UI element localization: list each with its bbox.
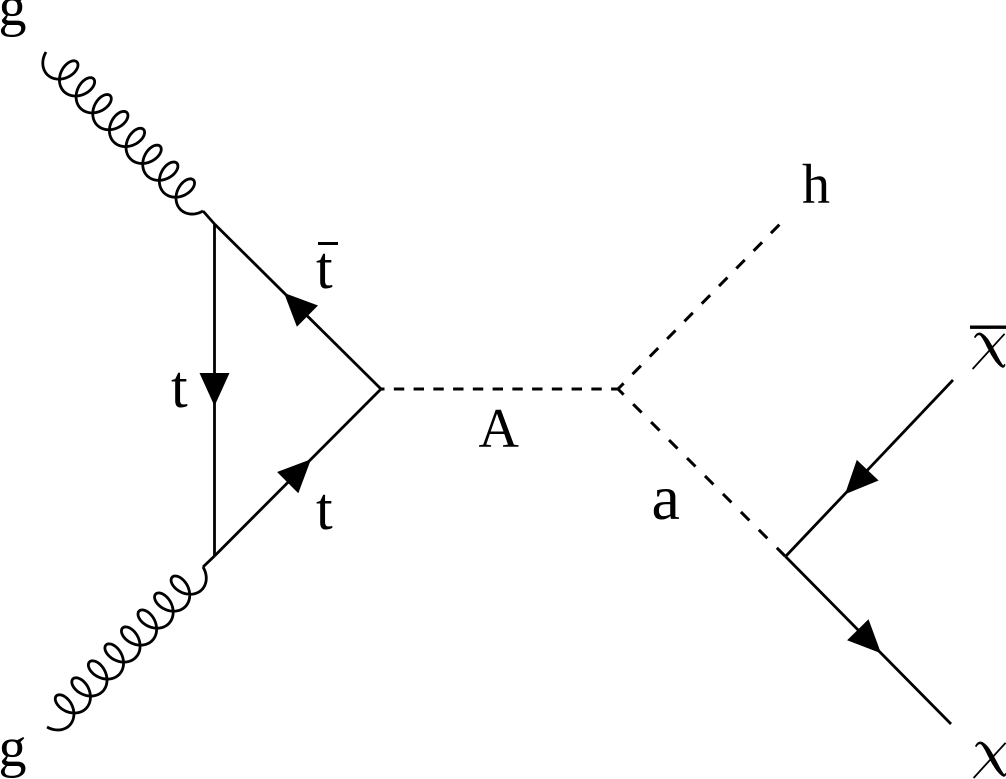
svg-text:a: a [652, 462, 680, 533]
svg-text:t: t [316, 235, 333, 301]
svg-text:t: t [171, 354, 188, 420]
svg-text:g: g [0, 0, 27, 38]
svg-text:g: g [0, 717, 27, 779]
svg-text:h: h [802, 154, 830, 216]
svg-text:t: t [316, 476, 333, 542]
svg-text:A: A [479, 398, 520, 460]
